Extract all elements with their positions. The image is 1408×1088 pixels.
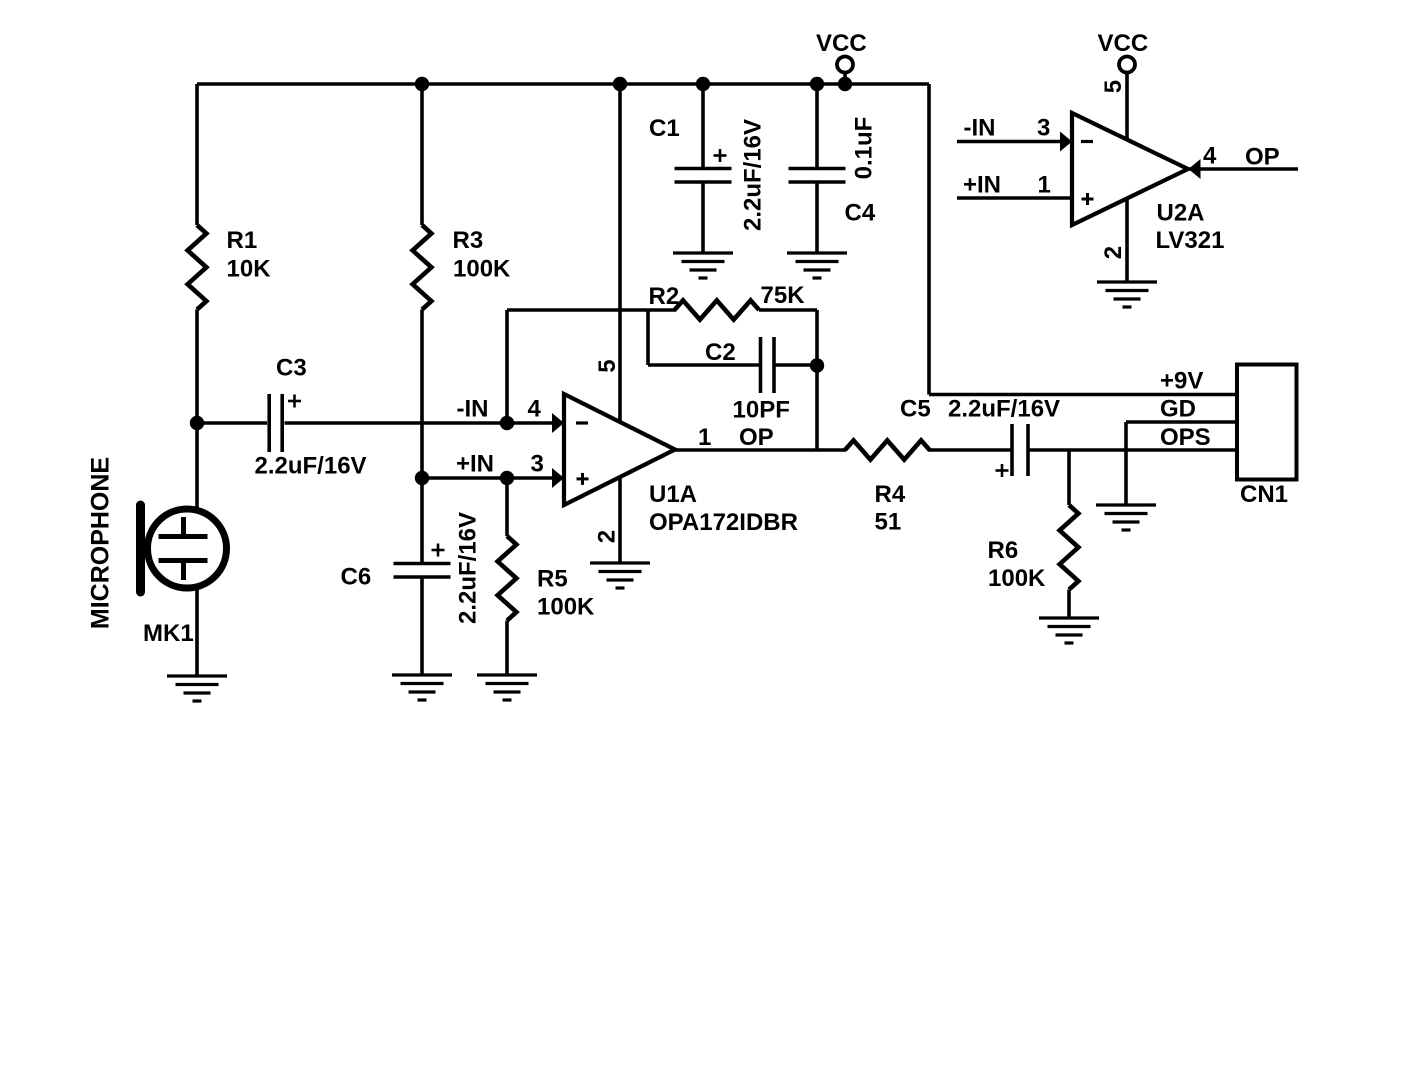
wire -IN feedback vertical — [505, 310, 509, 423]
op-amp U2A output arrow — [1189, 159, 1201, 179]
resistor R6 label — [988, 537, 1047, 592]
svg-text:U2A: U2A — [1157, 200, 1205, 227]
svg-text:1: 1 — [1038, 172, 1051, 199]
op-amp U1A pin3 label — [456, 451, 544, 478]
capacitor C1 value — [740, 119, 767, 231]
capacitor C2 label — [705, 339, 736, 366]
connector CN1 label — [1240, 481, 1288, 508]
svg-text:C3: C3 — [276, 355, 307, 382]
wire top VCC rail — [197, 82, 929, 86]
capacitor C1 plus — [714, 149, 727, 162]
svg-text:VCC: VCC — [816, 30, 867, 57]
op-amp U1A pin1 label — [698, 424, 774, 451]
wire R6 top — [1067, 450, 1071, 505]
capacitor C1 label — [649, 115, 680, 142]
ground R5 — [477, 675, 537, 700]
node R2 / C2 right junction — [810, 358, 824, 372]
op-amp U2A pin1 label — [963, 172, 1051, 199]
svg-text:5: 5 — [594, 359, 621, 372]
wire C5 to CN1 OPS — [1030, 448, 1238, 452]
svg-text:10PF: 10PF — [733, 397, 790, 424]
op-amp U2A pin5 label — [1100, 80, 1127, 93]
wire U1A output — [675, 448, 846, 452]
wire C3 to -IN — [285, 421, 555, 425]
svg-text:R4: R4 — [875, 481, 906, 508]
node -IN junction — [500, 416, 514, 430]
svg-text:C5: C5 — [900, 396, 931, 423]
wire U2A pin3 -IN — [957, 140, 1061, 144]
svg-text:OPA172IDBR: OPA172IDBR — [649, 509, 798, 536]
capacitor C6 label — [341, 564, 372, 591]
op-amp U2A plus — [1082, 193, 1094, 205]
capacitor C6 — [394, 564, 451, 578]
resistor R4 label — [875, 481, 906, 536]
wire R4 to C5 — [928, 448, 1011, 452]
op-amp U1A minus — [576, 421, 588, 424]
resistor R6 — [1060, 505, 1079, 590]
wire VCC rail down — [927, 84, 931, 395]
capacitor C3 plus — [288, 395, 301, 408]
svg-text:2.2uF/16V: 2.2uF/16V — [255, 453, 367, 480]
wire U2A output OP — [1188, 167, 1298, 171]
power VCC right — [1098, 30, 1149, 73]
capacitor C6 plus — [432, 544, 445, 557]
wire C3 left — [197, 421, 267, 425]
svg-text:100K: 100K — [537, 594, 595, 621]
ground R6 — [1039, 618, 1099, 643]
svg-text:C6: C6 — [341, 564, 372, 591]
capacitor C2 value — [733, 397, 790, 424]
capacitor C2 — [761, 337, 775, 393]
svg-text:0.1uF: 0.1uF — [851, 117, 878, 180]
wire U2A pin2 — [1125, 199, 1129, 283]
ground C4 — [787, 253, 847, 278]
wire C4 bottom — [815, 183, 819, 254]
wire R1 top — [195, 84, 199, 225]
ground U1A pin2 — [590, 563, 650, 588]
wire +IN — [422, 476, 554, 480]
resistor R5 — [498, 536, 517, 621]
node +IN / R5 — [500, 471, 514, 485]
svg-text:R1: R1 — [227, 227, 258, 254]
svg-text:U1A: U1A — [649, 481, 697, 508]
wire microphone bottom — [195, 589, 199, 676]
wire R5 bottom — [505, 621, 509, 675]
op-amp U1A +IN arrow — [552, 468, 564, 488]
op-amp U1A pin2 label — [594, 530, 621, 543]
svg-text:10K: 10K — [227, 256, 272, 283]
svg-text:2.2uF/16V: 2.2uF/16V — [740, 119, 767, 231]
wire U1A pin5 — [618, 84, 622, 421]
op-amp U1A pin5 label — [594, 359, 621, 372]
op-amp U2A pin3 arrow — [1060, 132, 1072, 152]
node VCC rail / U1A pin5 — [613, 77, 627, 91]
wire feedback top — [507, 308, 676, 312]
capacitor C5 — [1012, 424, 1028, 476]
svg-text:R3: R3 — [453, 227, 484, 254]
capacitor C3 label — [276, 355, 307, 382]
svg-text:100K: 100K — [988, 565, 1046, 592]
capacitor C5 plus — [996, 464, 1009, 477]
wire R5 top — [505, 478, 509, 536]
op-amp U1A name — [649, 481, 798, 536]
resistor R3 label — [453, 227, 512, 283]
wire C2 right — [775, 363, 817, 367]
svg-text:2.2uF/16V: 2.2uF/16V — [948, 396, 1060, 423]
svg-text:R5: R5 — [537, 566, 568, 593]
connector CN1 pin GD — [1160, 396, 1196, 423]
svg-text:VCC: VCC — [1098, 30, 1149, 57]
wire GD vertical — [1124, 422, 1128, 505]
svg-text:+IN: +IN — [456, 451, 494, 478]
svg-text:C4: C4 — [845, 200, 876, 227]
svg-text:-IN: -IN — [964, 115, 996, 142]
wire microphone top — [195, 423, 199, 508]
svg-text:5: 5 — [1100, 80, 1127, 93]
resistor R4 — [845, 440, 930, 459]
wire C6 bottom — [420, 579, 424, 676]
svg-text:3: 3 — [531, 451, 544, 478]
node VCC rail / C1 — [696, 77, 710, 91]
wire C6 top — [420, 478, 424, 563]
svg-text:CN1: CN1 — [1240, 481, 1288, 508]
op-amp U1A pin4 label — [457, 396, 542, 423]
node VCC rail / R3 — [415, 77, 429, 91]
wire C2 branch vertical — [646, 310, 650, 365]
svg-text:LV321: LV321 — [1156, 227, 1225, 254]
op-amp U2A name — [1156, 200, 1225, 255]
wire U2A pin1 +IN — [957, 196, 1072, 200]
wire R3 top — [420, 84, 424, 225]
svg-text:+9V: +9V — [1160, 368, 1203, 395]
op-amp U1A plus — [577, 473, 589, 485]
wire R1 bottom — [195, 310, 199, 424]
power VCC left — [816, 30, 867, 73]
wire C4 top — [815, 84, 819, 168]
svg-text:75K: 75K — [761, 282, 806, 309]
capacitor C3 value — [255, 453, 367, 480]
resistor R3 — [413, 225, 432, 310]
microphone MK1 label — [143, 620, 194, 647]
svg-text:3: 3 — [1037, 115, 1050, 142]
capacitor C3 — [269, 394, 282, 452]
microphone MK1 — [141, 505, 227, 592]
svg-text:-IN: -IN — [457, 396, 489, 423]
svg-text:4: 4 — [1203, 143, 1217, 170]
svg-text:OP: OP — [1245, 144, 1280, 171]
op-amp U2A pin3 label — [964, 115, 1051, 142]
wire feedback right vertical — [815, 310, 819, 450]
op-amp U2A triangle — [1072, 113, 1188, 225]
svg-text:C2: C2 — [705, 339, 736, 366]
svg-text:1: 1 — [698, 424, 711, 451]
wire VCC stem — [843, 72, 847, 84]
op-amp U2A minus — [1081, 140, 1093, 143]
wire U2A pin5 — [1125, 72, 1129, 140]
capacitor C4 label — [845, 200, 876, 227]
ground U2A pin2 — [1097, 282, 1157, 307]
wire R3 bottom — [420, 310, 424, 479]
resistor R1 — [188, 225, 207, 310]
wire C1 top — [701, 84, 705, 168]
microphone title — [87, 457, 115, 629]
wire GD horizontal — [1126, 420, 1237, 424]
capacitor C5 label — [900, 396, 931, 423]
node R1 / C3 / microphone — [190, 416, 204, 430]
ground microphone — [167, 676, 227, 701]
ground CN1 GD — [1096, 505, 1156, 530]
svg-text:R2: R2 — [649, 283, 680, 310]
connector CN1 pin OPS — [1160, 424, 1211, 451]
svg-text:MICROPHONE: MICROPHONE — [87, 457, 115, 629]
svg-text:C1: C1 — [649, 115, 680, 142]
op-amp U2A pin2 label — [1100, 246, 1127, 259]
op-amp U1A triangle — [564, 394, 675, 505]
node VCC rail / VCC tap — [838, 77, 852, 91]
resistor R5 label — [537, 566, 595, 621]
resistor R2 — [675, 300, 760, 319]
svg-text:+IN: +IN — [963, 172, 1001, 199]
wire C1 bottom — [701, 183, 705, 254]
wire +9V — [929, 393, 1237, 397]
ground C1 — [673, 253, 733, 278]
wire R2 right — [759, 308, 817, 312]
op-amp U1A -IN arrow — [552, 413, 564, 433]
svg-text:2.2uF/16V: 2.2uF/16V — [455, 512, 482, 624]
svg-text:2: 2 — [1100, 246, 1127, 259]
node VCC rail / C4 — [810, 77, 824, 91]
capacitor C4 value — [851, 117, 878, 180]
svg-text:OP: OP — [739, 424, 774, 451]
op-amp U2A pin4 label — [1203, 143, 1280, 171]
svg-text:OPS: OPS — [1160, 424, 1211, 451]
capacitor C1 — [675, 169, 732, 183]
svg-text:GD: GD — [1160, 396, 1196, 423]
node R3 / +IN / C6 — [415, 471, 429, 485]
ground C6 — [392, 675, 452, 700]
capacitor C4 — [789, 169, 846, 183]
svg-text:MK1: MK1 — [143, 620, 194, 647]
svg-text:51: 51 — [875, 509, 902, 536]
svg-text:4: 4 — [528, 396, 542, 423]
resistor R2 label — [649, 282, 806, 310]
svg-text:2: 2 — [594, 530, 621, 543]
capacitor C5 value — [948, 396, 1060, 423]
wire R6 bottom — [1067, 590, 1071, 618]
connector CN1 pin +9V — [1160, 368, 1203, 395]
connector CN1 — [1237, 365, 1297, 480]
svg-text:100K: 100K — [453, 256, 511, 283]
resistor R1 label — [227, 227, 272, 283]
svg-text:R6: R6 — [988, 537, 1019, 564]
capacitor C6 value — [455, 512, 482, 624]
wire C2 left — [648, 363, 760, 367]
wire U1A pin2 — [618, 478, 622, 563]
